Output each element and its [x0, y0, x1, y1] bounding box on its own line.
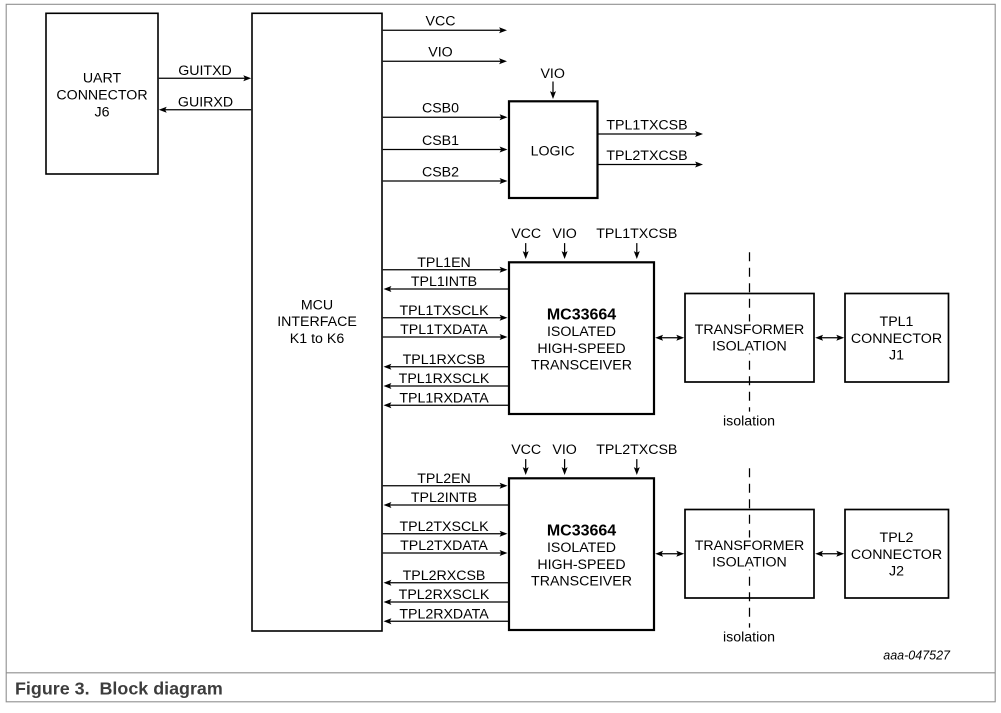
svg-text:GUIRXD: GUIRXD: [178, 94, 233, 110]
svg-text:TPL2TXCSB: TPL2TXCSB: [596, 442, 677, 458]
svg-text:ISOLATED: ISOLATED: [547, 540, 616, 556]
svg-text:CSB0: CSB0: [422, 101, 459, 117]
svg-text:CONNECTOR: CONNECTOR: [851, 547, 942, 563]
svg-text:MC33664: MC33664: [547, 523, 616, 540]
svg-text:aaa-047527: aaa-047527: [883, 649, 951, 663]
svg-text:TPL1RXDATA: TPL1RXDATA: [399, 390, 489, 406]
svg-text:TRANSCEIVER: TRANSCEIVER: [531, 357, 632, 373]
svg-text:UART: UART: [83, 71, 122, 87]
svg-text:Figure 3. Block diagram: Figure 3. Block diagram: [15, 678, 223, 698]
svg-text:INTERFACE: INTERFACE: [277, 314, 357, 330]
svg-text:ISOLATED: ISOLATED: [547, 324, 616, 340]
svg-text:LOGIC: LOGIC: [531, 144, 575, 160]
svg-text:K1 to K6: K1 to K6: [290, 331, 345, 347]
svg-text:GUITXD: GUITXD: [178, 63, 232, 79]
svg-text:J2: J2: [889, 564, 904, 580]
svg-text:TPL1RXCSB: TPL1RXCSB: [403, 352, 486, 368]
svg-text:MCU: MCU: [301, 298, 333, 314]
svg-text:TPL2TXDATA: TPL2TXDATA: [400, 538, 488, 554]
svg-text:HIGH-SPEED: HIGH-SPEED: [537, 557, 625, 573]
svg-text:TRANSFORMER: TRANSFORMER: [695, 322, 805, 338]
svg-text:VCC: VCC: [511, 226, 541, 242]
svg-text:CSB1: CSB1: [422, 133, 459, 149]
svg-text:CSB2: CSB2: [422, 164, 459, 180]
svg-text:VIO: VIO: [552, 442, 576, 458]
svg-text:TPL1TXCSB: TPL1TXCSB: [596, 226, 677, 242]
svg-text:ISOLATION: ISOLATION: [712, 555, 787, 571]
svg-text:CONNECTOR: CONNECTOR: [56, 88, 147, 104]
svg-text:TPL1TXSCLK: TPL1TXSCLK: [399, 303, 489, 319]
svg-text:TPL2RXCSB: TPL2RXCSB: [403, 568, 486, 584]
svg-text:HIGH-SPEED: HIGH-SPEED: [537, 341, 625, 357]
svg-text:isolation: isolation: [723, 630, 775, 646]
svg-text:TPL2RXSCLK: TPL2RXSCLK: [399, 587, 490, 603]
svg-text:TPL2INTB: TPL2INTB: [411, 490, 477, 506]
svg-text:VCC: VCC: [426, 14, 456, 30]
svg-text:TPL2EN: TPL2EN: [417, 471, 471, 487]
svg-text:TPL1INTB: TPL1INTB: [411, 274, 477, 290]
svg-text:MC33664: MC33664: [547, 307, 616, 324]
svg-text:TPL1RXSCLK: TPL1RXSCLK: [399, 371, 490, 387]
svg-text:ISOLATION: ISOLATION: [712, 339, 787, 355]
svg-text:VIO: VIO: [540, 66, 564, 82]
svg-text:VIO: VIO: [428, 45, 452, 61]
svg-text:VIO: VIO: [552, 226, 576, 242]
svg-text:TPL1: TPL1: [880, 314, 914, 330]
svg-text:J1: J1: [889, 348, 904, 364]
svg-text:J6: J6: [95, 104, 110, 120]
svg-text:VCC: VCC: [511, 442, 541, 458]
svg-text:TPL2RXDATA: TPL2RXDATA: [399, 606, 489, 622]
svg-text:TPL2TXCSB: TPL2TXCSB: [606, 148, 687, 164]
svg-text:TPL1TXCSB: TPL1TXCSB: [606, 117, 687, 133]
svg-text:TPL2: TPL2: [880, 530, 914, 546]
svg-text:TRANSFORMER: TRANSFORMER: [695, 538, 805, 554]
svg-text:TRANSCEIVER: TRANSCEIVER: [531, 573, 632, 589]
svg-text:TPL1EN: TPL1EN: [417, 255, 471, 271]
svg-text:CONNECTOR: CONNECTOR: [851, 331, 942, 347]
svg-text:TPL2TXSCLK: TPL2TXSCLK: [399, 519, 489, 535]
svg-text:TPL1TXDATA: TPL1TXDATA: [400, 322, 488, 338]
svg-text:isolation: isolation: [723, 414, 775, 430]
